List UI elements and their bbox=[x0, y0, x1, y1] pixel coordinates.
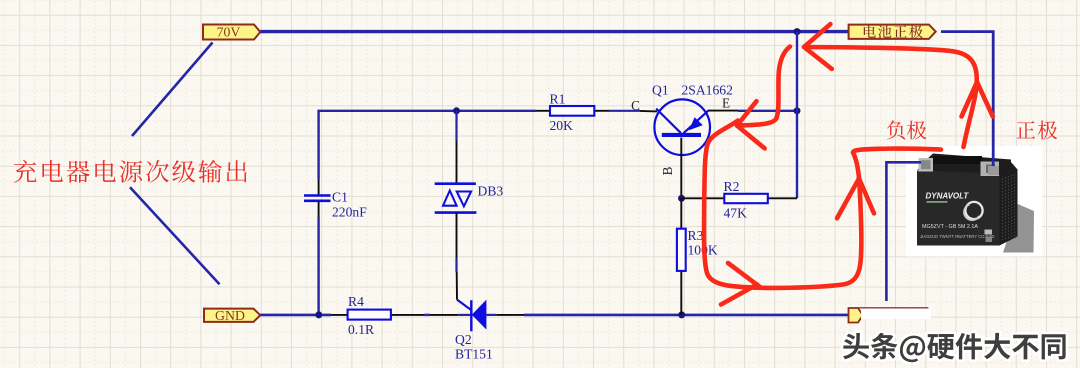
junction top rail bbox=[794, 28, 801, 35]
wire 70V rail bbox=[260, 30, 848, 33]
annotation text 正极 bbox=[1016, 121, 1057, 140]
svg-text:70V: 70V bbox=[217, 25, 241, 40]
svg-text:DYNAVOLT: DYNAVOLT bbox=[926, 192, 970, 201]
svg-text:C1: C1 bbox=[332, 189, 348, 204]
junction R3 bottom bbox=[678, 311, 685, 318]
annotation arrow from battery positive to 70V rail bbox=[804, 24, 993, 147]
annotation text 负极 bbox=[887, 120, 927, 139]
svg-text:DB3: DB3 bbox=[478, 184, 504, 199]
capacitor C1 bbox=[304, 179, 367, 220]
svg-text:MG5ZVT - GB 5M 2.1A: MG5ZVT - GB 5M 2.1A bbox=[922, 224, 978, 230]
callout leader line upper bbox=[132, 43, 213, 137]
resistor R2 bbox=[682, 179, 798, 220]
junction DB3 branch bbox=[453, 107, 460, 114]
transistor Q1 2SA1662 bbox=[640, 83, 738, 199]
annotation loop around output stage bbox=[704, 121, 941, 305]
thyristor Q2 BT151 bbox=[430, 300, 524, 362]
resistor R1 bbox=[536, 92, 609, 134]
wire E to right rail bbox=[738, 110, 798, 112]
wire label to battery positive bbox=[941, 32, 993, 164]
svg-text:20K: 20K bbox=[550, 118, 574, 133]
svg-text:0.1R: 0.1R bbox=[348, 322, 375, 337]
wire R1 to Q1 bbox=[609, 110, 640, 112]
wire R4 to Q2 bbox=[424, 314, 430, 316]
diac DB3 bbox=[435, 111, 504, 300]
wire left vertical bbox=[317, 110, 319, 179]
wire battery negative bbox=[886, 162, 921, 301]
battery photo bbox=[906, 146, 1042, 257]
junction base node bbox=[678, 195, 685, 202]
svg-text:R1: R1 bbox=[550, 92, 566, 107]
svg-text:R3: R3 bbox=[688, 228, 704, 243]
resistor R3 bbox=[677, 198, 718, 315]
svg-text:R2: R2 bbox=[724, 179, 740, 194]
svg-text:B: B bbox=[660, 166, 675, 175]
svg-text:GND: GND bbox=[215, 308, 245, 323]
svg-text:47K: 47K bbox=[724, 205, 748, 220]
net label GND bbox=[204, 308, 260, 323]
annotation arrow to Q1 emitter bbox=[737, 47, 790, 149]
wire C1 to GND row bbox=[317, 217, 319, 315]
svg-text:Q2: Q2 bbox=[455, 332, 472, 347]
wire GND row left bbox=[260, 314, 331, 317]
svg-text:Q1: Q1 bbox=[652, 83, 669, 98]
wire right vertical rail bbox=[796, 32, 798, 199]
junction E rail bbox=[794, 107, 801, 114]
svg-text:220nF: 220nF bbox=[332, 205, 367, 220]
annotation text 充电器电源次级输出 bbox=[14, 160, 247, 183]
svg-text:R4: R4 bbox=[348, 294, 364, 309]
wire C row bbox=[319, 110, 536, 112]
svg-text:E: E bbox=[722, 96, 730, 111]
net label remnant (whited out) bbox=[849, 308, 932, 323]
junction C1 branch bbox=[315, 311, 322, 318]
net label 电池正极 bbox=[849, 25, 936, 39]
svg-text:BT151: BT151 bbox=[455, 347, 493, 362]
resistor R4 bbox=[331, 294, 424, 337]
watermark 头条@硬件大不同 bbox=[843, 333, 1066, 362]
callout leader line lower bbox=[130, 187, 220, 284]
wire GND row right bbox=[524, 314, 849, 317]
svg-text:C: C bbox=[631, 98, 640, 113]
net label 70V bbox=[203, 25, 260, 40]
svg-text:JIAOZUO TWNYT RBATTERY CO.T.TD: JIAOZUO TWNYT RBATTERY CO.T.TD bbox=[920, 234, 995, 239]
